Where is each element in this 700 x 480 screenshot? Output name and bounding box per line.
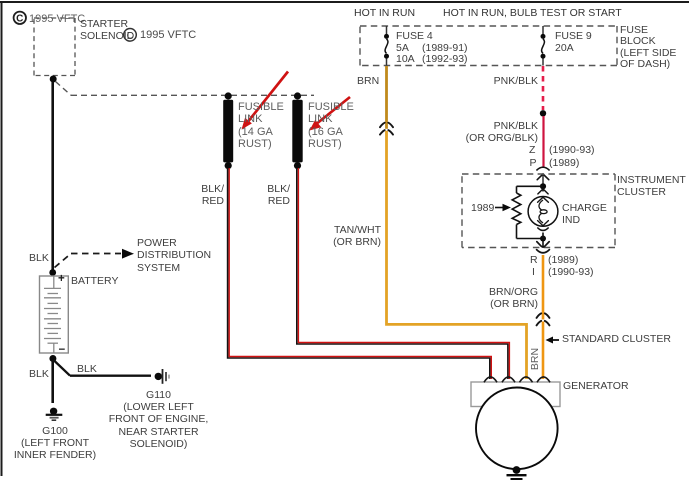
svg-text:C: C: [16, 14, 23, 25]
